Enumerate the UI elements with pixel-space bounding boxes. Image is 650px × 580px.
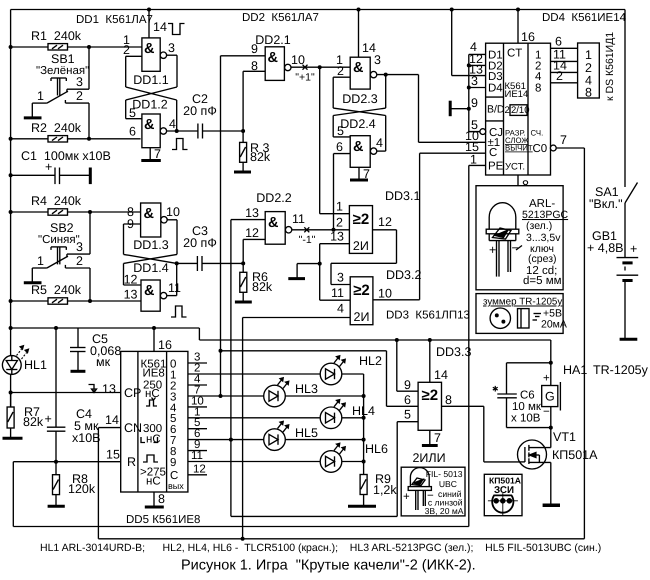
resistor R7 82k bbox=[7, 393, 44, 430]
ground DD1.2 pin7 bbox=[141, 147, 161, 161]
svg-text:13: 13 bbox=[245, 206, 259, 220]
ground VT1 source bbox=[543, 462, 560, 505]
svg-text:14: 14 bbox=[153, 20, 167, 34]
pin labels D inputs bbox=[465, 40, 483, 167]
x mark +1 bbox=[295, 65, 315, 84]
wire LED cathode common vertical bbox=[363, 374, 365, 475]
wire DD3.3 pin9 from bus bbox=[397, 340, 418, 391]
svg-text:20мА: 20мА bbox=[541, 319, 567, 331]
svg-text:ВЫЧИТ: ВЫЧИТ bbox=[505, 144, 533, 153]
svg-text:&: & bbox=[144, 41, 155, 57]
wire DD5 output 9 row HL6 bbox=[188, 450, 364, 462]
wire DD5 carry stub bbox=[188, 463, 207, 475]
node dot bus DD3.3 pin9 bbox=[395, 338, 399, 342]
ground R7 bbox=[3, 428, 23, 438]
ground DD2.4 pin7 bbox=[350, 167, 370, 181]
svg-text:"Синяя": "Синяя" bbox=[38, 234, 80, 246]
wire DD3.2 pin4 from CN net bbox=[243, 318, 351, 539]
led HL5 bbox=[264, 421, 318, 450]
resistor R9 1.2k bbox=[360, 472, 397, 497]
wire DD1.3 pin9 cross from DD1.4 bbox=[124, 224, 177, 263]
svg-text:D4: D4 bbox=[488, 83, 503, 95]
svg-text:TR-1205у: TR-1205у bbox=[593, 363, 649, 377]
svg-text:1: 1 bbox=[585, 48, 592, 62]
node dot R1 right SB1 bbox=[87, 45, 91, 49]
svg-text:DD1 К561ЛА7: DD1 К561ЛА7 bbox=[76, 14, 153, 26]
svg-text:1: 1 bbox=[336, 200, 343, 214]
svg-text:+: + bbox=[543, 373, 550, 385]
svg-text:к DS К561ИД1: к DS К561ИД1 bbox=[604, 32, 616, 101]
node dot DD2 pin14 on top bus bbox=[357, 8, 361, 12]
svg-text:9: 9 bbox=[471, 96, 478, 110]
svg-text:5: 5 bbox=[337, 124, 344, 138]
resistor R3 82k bbox=[240, 131, 271, 164]
svg-text:&: & bbox=[144, 117, 155, 133]
wire DD5 output 0 stub bbox=[188, 352, 207, 364]
svg-text:13: 13 bbox=[102, 382, 116, 396]
connector to DS K561ID1 bbox=[578, 32, 616, 101]
ground DD3.1 pin13 bbox=[288, 277, 305, 280]
svg-text:DD3.2: DD3.2 bbox=[386, 268, 421, 282]
svg-text:&: & bbox=[268, 50, 279, 66]
ground C5 bbox=[71, 370, 86, 373]
switch SA1 bbox=[589, 10, 638, 258]
ground DD5 pin8 bbox=[145, 492, 165, 507]
wire DD2.3 output cross to DD2.4 pin5 bbox=[333, 75, 418, 137]
svg-text:R: R bbox=[127, 455, 136, 469]
svg-text:SB2: SB2 bbox=[50, 221, 74, 235]
svg-text:13: 13 bbox=[330, 230, 344, 244]
capacitor C4 5mk bbox=[45, 328, 101, 462]
svg-text:14: 14 bbox=[434, 368, 448, 382]
ground R6 bbox=[235, 292, 252, 302]
svg-text:&: & bbox=[268, 215, 279, 231]
node dot common HL6 bbox=[362, 460, 366, 464]
wire CP row bbox=[11, 392, 121, 394]
nand gate DD1.4 bbox=[124, 261, 181, 311]
wire DD5 output 2 stub bbox=[188, 374, 207, 386]
majority gate DD3.2 bbox=[331, 268, 421, 325]
left border +V wire bbox=[10, 10, 12, 408]
svg-text:нС: нС bbox=[146, 434, 161, 446]
wire +V bus bbox=[11, 328, 551, 363]
svg-text:d=5 мм.: d=5 мм. bbox=[523, 275, 565, 287]
svg-text:2: 2 bbox=[336, 216, 343, 230]
svg-text:82k: 82k bbox=[250, 150, 271, 164]
led HL2 bbox=[320, 354, 382, 385]
svg-text:+ 4,8В: + 4,8В bbox=[587, 241, 624, 255]
svg-text:DD1.3: DD1.3 bbox=[133, 238, 168, 252]
svg-text:нС: нС bbox=[146, 476, 161, 488]
node dot bus to HA1 C6 bbox=[549, 361, 553, 365]
node dot bracket BD bbox=[467, 107, 471, 111]
wire DD5 output 4 stub bbox=[188, 395, 207, 407]
svg-text:12: 12 bbox=[124, 273, 138, 287]
wire DD1.2 output cross to DD1.1 pin2 bbox=[126, 56, 177, 131]
svg-text:G: G bbox=[545, 390, 555, 404]
nand gate DD1.1 bbox=[123, 10, 175, 88]
svg-text:2/10: 2/10 bbox=[511, 105, 530, 116]
svg-text:3: 3 bbox=[471, 74, 478, 88]
svg-text:C1 100мк x10В: C1 100мк x10В bbox=[21, 149, 111, 163]
ground R3 bbox=[234, 162, 251, 172]
capacitor C3 20pF bbox=[177, 224, 244, 271]
svg-text:+: + bbox=[403, 491, 410, 503]
capacitor C6 10mk bbox=[492, 363, 551, 428]
svg-text:6: 6 bbox=[404, 393, 411, 407]
svg-text:1: 1 bbox=[470, 153, 477, 167]
waveform glyph pulse at DD1.2 output bbox=[172, 139, 188, 150]
svg-text:R4 240k: R4 240k bbox=[31, 194, 82, 208]
node dot out3 net to DD3.3 pin6 row bbox=[219, 349, 223, 353]
node dot CN net DD3.2 pin4 bbox=[241, 537, 245, 541]
svg-text:C0: C0 bbox=[533, 143, 548, 155]
svg-text:HL2: HL2 bbox=[359, 354, 382, 368]
wire DD5 output 8 stub bbox=[188, 439, 207, 451]
wire DD2.3 pin2 cross from DD2.4 bbox=[333, 77, 386, 115]
svg-text:2: 2 bbox=[76, 254, 83, 268]
resistor R4 240k bbox=[11, 194, 141, 215]
wire DD3.3 pin14 from bus bbox=[429, 340, 431, 382]
svg-text:HL1 ARL-3014URD-B; HL2, H: HL1 ARL-3014URD-B; HL2, HL4, HL6 - TLCR5… bbox=[40, 542, 601, 554]
svg-text:20 пФ: 20 пФ bbox=[183, 104, 217, 118]
svg-text:&: & bbox=[353, 60, 364, 76]
capacitor C2 20pF bbox=[167, 92, 244, 139]
wire DD2.1 pin8 from C2 node bbox=[243, 71, 265, 131]
svg-text:6: 6 bbox=[336, 140, 343, 154]
info box ARL-5213PGC bbox=[476, 186, 569, 290]
svg-text:9: 9 bbox=[170, 457, 176, 469]
x mark -1 bbox=[299, 227, 316, 246]
node dot DD1 pin14 on top bus bbox=[147, 8, 151, 12]
svg-text:9: 9 bbox=[251, 42, 258, 56]
svg-text:HL5: HL5 bbox=[295, 426, 318, 440]
node dot C1 left border bbox=[9, 173, 13, 177]
battery GB1 bbox=[587, 229, 638, 339]
svg-text:6: 6 bbox=[129, 125, 136, 139]
node dot R2 left border bbox=[9, 137, 13, 141]
svg-text:7: 7 bbox=[434, 431, 441, 445]
svg-text:DD2.3: DD2.3 bbox=[342, 92, 377, 106]
node dot C3 right R6 bbox=[241, 261, 245, 265]
node dot DD4 pin16 on top bus bbox=[516, 8, 520, 12]
wire DD4 pin16 from top bus bbox=[518, 10, 535, 45]
nand gate DD2.4 bbox=[336, 117, 383, 167]
ground R8 bbox=[48, 495, 65, 507]
svg-text:11: 11 bbox=[191, 450, 203, 462]
svg-text:HL6: HL6 bbox=[365, 442, 388, 456]
svg-text:✱: ✱ bbox=[492, 385, 499, 394]
wire DD2.2 pin12 from C3 node bbox=[243, 239, 265, 263]
svg-text:20 пФ: 20 пФ bbox=[183, 236, 217, 250]
wire DD3.2 pin11 from ground node bbox=[320, 299, 351, 301]
svg-text:≥2: ≥2 bbox=[353, 211, 370, 228]
nand gate DD2.1 bbox=[251, 33, 305, 80]
svg-text:+: + bbox=[45, 160, 52, 174]
node dot -1 DD2.4 pin6 bbox=[332, 228, 336, 232]
svg-text:4: 4 bbox=[337, 302, 344, 316]
node dot R4 SB2 pin3 bbox=[88, 210, 92, 214]
waveform glyph inverted pulse above DD1.1 bbox=[168, 24, 185, 35]
svg-text:Рисунок 1. Игра "Крутые качел: Рисунок 1. Игра "Крутые качели"-2 (ИКК-2… bbox=[181, 558, 476, 574]
svg-text:3В, 20 мА: 3В, 20 мА bbox=[425, 506, 464, 516]
node dot out3 to DD2.1 pin9 bbox=[219, 394, 223, 398]
svg-text:4: 4 bbox=[376, 136, 383, 150]
svg-text:PE: PE bbox=[488, 161, 504, 173]
majority gate DD3.3 bbox=[404, 368, 452, 430]
ground SB2 bbox=[24, 268, 42, 283]
svg-text:120k: 120k bbox=[68, 482, 96, 496]
capacitor C5 0.068mk bbox=[70, 328, 121, 370]
wire DD1.4 output up to C3 row bbox=[167, 263, 177, 295]
edge glyph CP bbox=[89, 382, 116, 396]
wire DD3.1 pin13 from ground bbox=[297, 244, 349, 301]
svg-text:≥2: ≥2 bbox=[422, 387, 439, 404]
wire +1 line DD2.1 out to DD2.3 pin1 bbox=[291, 66, 350, 68]
svg-text:2: 2 bbox=[123, 43, 130, 57]
svg-text:11: 11 bbox=[168, 281, 181, 295]
info box FIL-5013 bbox=[401, 467, 465, 516]
led HL4 bbox=[320, 400, 375, 429]
node dot C2 right R3 bbox=[241, 129, 245, 133]
svg-text:6: 6 bbox=[555, 35, 562, 49]
wire DD2.1 pin9 from counter row bbox=[221, 55, 266, 57]
svg-text:82k: 82k bbox=[252, 280, 273, 294]
nand gate DD2.2 bbox=[245, 191, 305, 244]
wire DD2.4 pin6 to -1 line bbox=[334, 154, 351, 230]
nand gate DD1.2 bbox=[129, 98, 176, 148]
svg-text:82k: 82k bbox=[23, 415, 44, 429]
svg-text:мк: мк bbox=[96, 355, 111, 369]
pushbutton SB1 "Зелёная" bbox=[32, 47, 89, 139]
node dot C4 R8 reset bbox=[54, 460, 58, 464]
svg-text:DD3.3: DD3.3 bbox=[436, 345, 471, 359]
svg-text:11: 11 bbox=[331, 286, 344, 300]
terminal bar B/D bbox=[450, 101, 469, 117]
ground SB1 bbox=[24, 103, 42, 118]
svg-text:SB1: SB1 bbox=[51, 52, 75, 66]
svg-text:"-1": "-1" bbox=[299, 234, 316, 246]
wire DD2.4 output up to cross bbox=[377, 116, 386, 152]
svg-text:КП501А: КП501А bbox=[552, 448, 598, 462]
wire DD5 output 3 row HL3 bbox=[188, 385, 364, 397]
svg-text:3: 3 bbox=[337, 271, 344, 285]
waveform glyph pulse at DD1.4 output bbox=[171, 306, 187, 317]
wire DD1.1 output cross to DD1.2 bbox=[126, 55, 177, 118]
svg-text:2ИЛИ: 2ИЛИ bbox=[412, 451, 445, 465]
svg-text:11: 11 bbox=[292, 212, 305, 226]
svg-text:DD2.4: DD2.4 bbox=[340, 117, 375, 131]
svg-text:&: & bbox=[144, 206, 155, 222]
svg-text:2: 2 bbox=[76, 89, 83, 103]
svg-text:"+1": "+1" bbox=[295, 72, 315, 84]
svg-text:15: 15 bbox=[106, 448, 120, 462]
svg-text:(срез): (срез) bbox=[528, 253, 557, 265]
svg-text:+: + bbox=[489, 243, 496, 257]
wire DD3.3 out8 to VT1 gate bbox=[442, 406, 520, 462]
svg-text:8: 8 bbox=[585, 86, 592, 100]
wire DD3.3 pin6 route bbox=[221, 351, 419, 407]
svg-text:R2 240k: R2 240k bbox=[31, 121, 82, 135]
svg-text:DD1.4: DD1.4 bbox=[133, 261, 168, 275]
svg-text:СN: СN bbox=[124, 421, 142, 435]
svg-text:10 мк: 10 мк bbox=[512, 401, 542, 413]
svg-text:8: 8 bbox=[445, 393, 452, 407]
info box buzzer TR-1205 bbox=[476, 294, 567, 334]
svg-text:16: 16 bbox=[521, 30, 535, 44]
svg-text:5: 5 bbox=[129, 106, 136, 120]
svg-text:4: 4 bbox=[535, 71, 542, 83]
node dot DD2.3 output bbox=[384, 73, 388, 77]
svg-text:12: 12 bbox=[193, 463, 206, 475]
buzzer HA1 bbox=[542, 363, 649, 428]
svg-text:DD3 К561ЛП13: DD3 К561ЛП13 bbox=[386, 310, 470, 322]
svg-text:R1 240k: R1 240k bbox=[31, 29, 82, 43]
svg-text:8: 8 bbox=[158, 492, 165, 506]
svg-text:1: 1 bbox=[37, 254, 44, 268]
node dot bracket D4 bbox=[467, 86, 471, 90]
svg-text:КП501А: КП501А bbox=[489, 476, 521, 486]
node dot HL1 R7 CP bbox=[9, 391, 13, 395]
svg-text:D3: D3 bbox=[488, 71, 503, 83]
svg-text:12: 12 bbox=[378, 215, 392, 229]
ground DD4 pin8 bbox=[504, 175, 531, 195]
svg-text:C: C bbox=[489, 147, 497, 159]
led HL1 bbox=[2, 346, 47, 375]
wire CJ row stub bbox=[469, 131, 480, 133]
svg-text:DD2.1: DD2.1 bbox=[255, 33, 290, 47]
svg-text:2И: 2И bbox=[353, 239, 369, 253]
wire DD5 output 5 row HL4 bbox=[188, 406, 364, 418]
svg-text:3: 3 bbox=[76, 75, 83, 89]
svg-text:вых: вых bbox=[168, 481, 184, 491]
svg-text:HL1: HL1 bbox=[24, 358, 47, 372]
svg-text:+: + bbox=[45, 412, 52, 426]
node dot common HL4 bbox=[362, 416, 366, 420]
pushbutton SB2 "Синяя" bbox=[32, 212, 90, 301]
wire DD5 output 1 row HL2 bbox=[188, 363, 364, 375]
wire CN row bbox=[98, 413, 584, 539]
wire DD3.1 out12 to DD3.2 pin3 bbox=[331, 230, 397, 285]
svg-text:УСТ.: УСТ. bbox=[505, 162, 525, 173]
wire DD5 output 7 row HL5 bbox=[188, 428, 364, 440]
wire DD5 output 6 stub bbox=[188, 417, 207, 429]
svg-text:UBC: UBC bbox=[439, 479, 457, 489]
wire C0 output bbox=[550, 133, 584, 539]
svg-text:DD2.2: DD2.2 bbox=[256, 191, 291, 205]
nand gate DD2.3 bbox=[336, 10, 381, 107]
svg-text:2: 2 bbox=[556, 69, 563, 83]
ground DD3.3 pin7 bbox=[422, 430, 441, 445]
node dot D3 line on top bus bbox=[450, 8, 454, 12]
svg-text:1: 1 bbox=[37, 89, 44, 103]
wire out3 net vertical bbox=[220, 56, 222, 396]
wire DD4 outputs to connector bbox=[551, 35, 578, 84]
inverter bubble CJ pin5 bbox=[480, 129, 486, 135]
svg-text:10: 10 bbox=[166, 205, 180, 219]
wire +1 vertical to DD3.1 pin1 bbox=[320, 67, 350, 214]
svg-text:R5 240k: R5 240k bbox=[31, 283, 82, 297]
svg-text:DD2 К561ЛА7: DD2 К561ЛА7 bbox=[242, 12, 319, 24]
svg-text:B/D: B/D bbox=[487, 104, 505, 116]
ground R9 bbox=[348, 495, 376, 507]
node dot +1 branch bbox=[318, 65, 322, 69]
wire DD3.3 pin5 route bbox=[231, 422, 418, 517]
svg-text:4: 4 bbox=[169, 117, 176, 131]
svg-text:7: 7 bbox=[363, 167, 370, 181]
svg-text:ИЕ8: ИЕ8 bbox=[143, 368, 165, 380]
nand gate DD1.3 bbox=[127, 203, 180, 252]
svg-text:СЧ.: СЧ. bbox=[531, 129, 544, 138]
wire DD5 pin16 bbox=[154, 328, 172, 352]
wire DD2.3 out down to plus-minus-1 input DD4 bbox=[419, 75, 486, 143]
svg-text:10: 10 bbox=[378, 287, 392, 301]
resistor R8 120k bbox=[53, 462, 96, 496]
wire D3 input from top bus bbox=[452, 10, 486, 76]
node dot common HL3 bbox=[362, 394, 366, 398]
svg-text:HL3: HL3 bbox=[295, 382, 318, 396]
node dot R2 SB1 pin2 bbox=[87, 137, 91, 141]
info box KP501A package bbox=[484, 474, 522, 515]
svg-text:FIL- 5013: FIL- 5013 bbox=[426, 469, 463, 479]
wire D-input bracket bbox=[469, 54, 486, 131]
node dot HA1 VT1 drain bbox=[549, 426, 553, 430]
node dot C2 left bbox=[175, 129, 179, 133]
svg-text:зуммер TR-1205у: зуммер TR-1205у bbox=[483, 297, 562, 308]
node dot bus DD5 pin16 bbox=[152, 326, 156, 330]
svg-text:"Вкл.": "Вкл." bbox=[589, 197, 623, 211]
svg-text:16: 16 bbox=[158, 338, 172, 352]
svg-text:7: 7 bbox=[154, 147, 161, 161]
svg-text:2: 2 bbox=[505, 105, 510, 116]
svg-text:2: 2 bbox=[337, 64, 344, 78]
svg-text:&: & bbox=[144, 283, 155, 299]
node dot out7 to DD2.2 pin13 bbox=[229, 438, 233, 442]
node dot bus C4 bbox=[54, 326, 58, 330]
svg-text:&: & bbox=[353, 139, 364, 155]
node dot R1 left border bbox=[9, 45, 13, 49]
svg-text:−: − bbox=[543, 406, 550, 418]
node dot bus DD3.3 pin14 bbox=[428, 338, 432, 342]
svg-text:DD1.1: DD1.1 bbox=[133, 73, 168, 87]
wire -1 line DD2.2 out to DD3.1 pin2 bbox=[292, 229, 350, 231]
svg-text:13: 13 bbox=[124, 288, 138, 302]
node dot bracket D2 bbox=[467, 63, 471, 67]
frame top border wire bbox=[11, 9, 625, 11]
svg-text:х 10В: х 10В bbox=[511, 413, 541, 425]
svg-text:3: 3 bbox=[168, 41, 175, 55]
svg-text:1,2k: 1,2k bbox=[373, 483, 397, 497]
svg-text:DD3.1: DD3.1 bbox=[385, 189, 420, 203]
node dot DD3.1 ground branch bbox=[318, 262, 322, 266]
led HL6 bbox=[320, 442, 388, 472]
counter DD5 K561IE8 bbox=[121, 351, 188, 492]
svg-text:14: 14 bbox=[105, 413, 119, 427]
wire C row from DD3.2 out10 bbox=[373, 153, 486, 300]
node dot R5 SB2 pin2 bbox=[88, 299, 92, 303]
svg-text:VT1: VT1 bbox=[553, 430, 576, 444]
resistor R5 240k bbox=[11, 283, 141, 304]
svg-text:8: 8 bbox=[535, 83, 541, 95]
svg-text:DD1.2: DD1.2 bbox=[132, 98, 167, 112]
svg-text:DD4 К561ИЕ14: DD4 К561ИЕ14 bbox=[542, 12, 627, 24]
transistor VT1 KP501A bbox=[518, 428, 599, 469]
svg-text:ЗСИ: ЗСИ bbox=[494, 485, 514, 496]
svg-text:СР: СР bbox=[124, 386, 141, 400]
resistor R6 82k bbox=[240, 263, 273, 294]
svg-text:3: 3 bbox=[374, 53, 381, 67]
wire DD1.3 output cross to DD1.4 pin12 bbox=[124, 220, 178, 285]
